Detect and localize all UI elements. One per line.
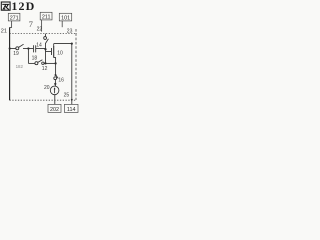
svg-text:10: 10 bbox=[57, 51, 63, 57]
svg-text:271: 271 bbox=[10, 15, 19, 21]
svg-text:14: 14 bbox=[36, 42, 42, 48]
svg-text:7: 7 bbox=[29, 19, 34, 29]
svg-text:18: 18 bbox=[32, 55, 38, 61]
svg-text:20: 20 bbox=[44, 85, 50, 91]
svg-text:114: 114 bbox=[67, 107, 76, 113]
svg-text:182: 182 bbox=[16, 64, 24, 69]
svg-text:25: 25 bbox=[64, 93, 70, 99]
svg-text:22: 22 bbox=[37, 27, 43, 33]
svg-text:101: 101 bbox=[61, 15, 70, 21]
svg-text:16: 16 bbox=[58, 77, 64, 83]
svg-text:21: 21 bbox=[1, 28, 7, 34]
svg-text:19: 19 bbox=[13, 51, 19, 57]
svg-text:12: 12 bbox=[42, 66, 48, 72]
svg-text:211: 211 bbox=[42, 14, 51, 20]
svg-text:23: 23 bbox=[67, 28, 73, 34]
svg-text:202: 202 bbox=[50, 107, 59, 113]
svg-text:12D: 12D bbox=[11, 0, 35, 13]
